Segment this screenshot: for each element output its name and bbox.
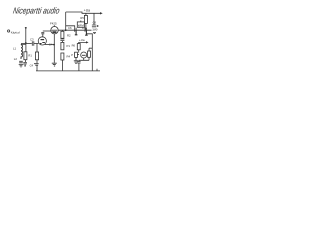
ground under cathode [52,63,57,66]
wire: C3 to V1a grid [34,43,39,45]
svg-text:C8: C8 [93,21,97,25]
capacitor + ground under L2 [19,61,23,63]
component box U1 [77,22,84,27]
capacitor C9 cathode bypass [78,59,80,62]
svg-text:R5: R5 [80,16,84,20]
tube V1a (lower) [38,37,46,45]
resistor R2 [61,31,64,38]
svg-text:Nicepartti audio: Nicepartti audio [12,6,61,16]
wire: C4 to ground rail [36,65,38,71]
wire: chain to ground rail [61,60,63,71]
svg-text:Käytt pf: Käytt pf [11,31,20,35]
wire: V1b grid to left cap [43,30,51,32]
pot P1 small box [75,52,78,57]
svg-text:+Ua: +Ua [79,38,85,42]
svg-text:R1: R1 [28,54,32,58]
svg-text:L2: L2 [14,57,18,61]
capacitor C5 in feedback chain [60,39,64,41]
wire: P1 bottom [75,57,77,60]
wire: vertical from rail1 to rail2 [65,12,67,30]
svg-text:P: P [71,53,73,57]
wire: +Ua top rail [66,12,101,13]
resistor R5 [84,15,87,23]
ground under P1 [74,61,78,64]
svg-text:C3: C3 [30,37,34,41]
wire: grid feed right vertical [86,34,92,48]
ground rail [36,69,100,71]
capacitor C2 coupling to V1b grid [41,32,44,33]
svg-text:R6: R6 [72,44,76,48]
wire: R1 down to cap [24,60,26,62]
svg-text:C4: C4 [49,43,53,47]
svg-text:R4: R4 [67,55,71,59]
resistor R1b grid leak [36,44,38,53]
svg-text:R2: R2 [67,33,71,37]
wire: R5 bottom to node rail [85,23,87,30]
resistor R4 [61,53,64,60]
svg-text:F425: F425 [50,21,57,25]
wire: V1b plate stub [53,25,55,27]
input terminal and label [8,30,10,32]
node junction dot input [25,42,27,44]
capacitor under R1 [23,62,27,64]
svg-text:C4: C4 [30,63,34,67]
svg-text:L1: L1 [13,46,17,50]
svg-text:C6: C6 [68,26,72,30]
resistor R3 [61,42,64,49]
tube V2 [81,52,87,58]
svg-text:1M0: 1M0 [92,28,98,32]
resistor R7 [88,51,91,57]
wire: signal to C3 [21,43,32,45]
ground under C8 [93,32,96,33]
capacitor C4 electrolytic [34,64,39,65]
svg-text:+Ua: +Ua [84,9,90,13]
junction dot [53,44,55,46]
wire: V1a cathode to junction [45,44,54,46]
svg-text:P1: P1 [67,44,71,48]
wire: node rail [58,29,92,31]
wire: input vertical [25,27,27,43]
capacitor C3 [32,41,34,45]
wire: V1b cathode long down [53,34,55,63]
resistor R1 [24,52,27,60]
tube V1b (upper) [51,27,58,34]
+Ua arrow [100,12,103,14]
wire: plate feed jog [66,26,75,28]
wire: V2 cathode network [79,58,89,60]
